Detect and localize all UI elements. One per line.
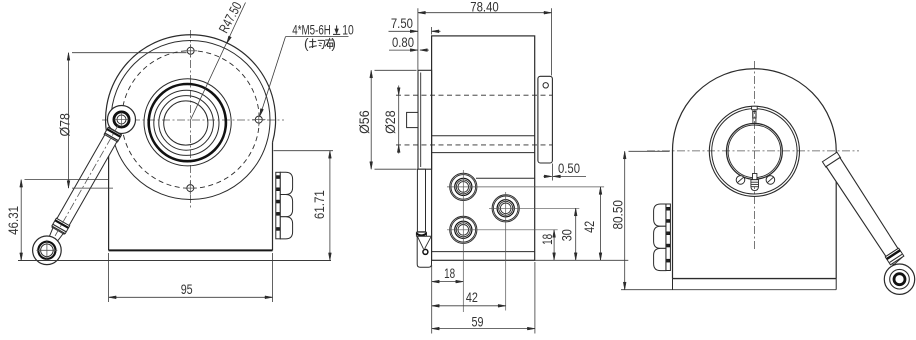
left view: R47.50 radial leader — [191, 3, 246, 121]
left view: M5 hole bottom — [187, 185, 194, 192]
dim 30 right — [575, 208, 577, 260]
middle view: boss centerlines — [447, 186, 604, 188]
svg-text:4*M5-6H: 4*M5-6H — [292, 22, 331, 37]
svg-text:10: 10 — [342, 22, 354, 37]
right view: top slot — [752, 106, 758, 109]
right view: lever ball — [884, 264, 914, 294]
dim 18 right — [553, 230, 555, 260]
middle view: hidden bore lines — [396, 94, 552, 96]
right view: base plate — [673, 278, 837, 280]
middle view: body — [432, 36, 535, 260]
svg-text:0.50: 0.50 — [558, 161, 580, 176]
svg-text:Ø56: Ø56 — [357, 110, 372, 134]
left view: connector side — [276, 172, 281, 239]
bottom extension right — [535, 259, 628, 261]
right view: bottom set screw — [753, 174, 757, 180]
svg-text:Ø28: Ø28 — [383, 110, 398, 134]
left view: lever shaft — [52, 127, 121, 234]
right view: lever shaft — [826, 158, 898, 257]
svg-text:7.50: 7.50 — [391, 16, 413, 31]
right view: dome outline — [673, 69, 837, 151]
svg-text:78.40: 78.40 — [470, 0, 499, 15]
right view: lever top cap — [822, 152, 840, 167]
middle view: cylinder boss — [418, 70, 432, 169]
left view: body sides — [108, 142, 110, 250]
middle view: lever bar — [417, 169, 425, 232]
left view: base bottom — [109, 249, 273, 251]
left view: bolt circle (dashed) — [122, 51, 260, 189]
svg-text:18: 18 — [444, 266, 455, 281]
left view: M5 hole top — [187, 47, 194, 54]
right view: lever taper to ball — [890, 257, 902, 268]
svg-text:18: 18 — [540, 234, 555, 245]
svg-text:80.50: 80.50 — [610, 200, 625, 230]
leader 4*M5 — [261, 37, 286, 115]
right view: clamp ring circles — [709, 106, 799, 196]
left view: lever shaft centerline — [42, 125, 118, 259]
middle view: horizontal seams — [432, 135, 535, 137]
dim 42 right — [600, 187, 602, 260]
svg-text:42: 42 — [582, 221, 597, 233]
middle view: face tab — [407, 112, 418, 127]
svg-text:(: ( — [304, 36, 309, 51]
middle view: boss fittings — [450, 173, 477, 200]
svg-text:59: 59 — [472, 314, 484, 329]
dim 59 bottom — [534, 262, 536, 334]
dim 46.31 vertical — [20, 180, 22, 261]
left view: inner bearing circles — [144, 79, 231, 166]
left view: M5 hole right — [255, 116, 262, 123]
svg-text:): ) — [331, 36, 336, 51]
svg-text:Ø78: Ø78 — [57, 113, 72, 137]
right view: centerlines — [647, 150, 859, 152]
right view: connector side — [666, 204, 671, 271]
right view: lever collar — [885, 248, 904, 265]
svg-text:95: 95 — [181, 282, 193, 297]
dim Ø28 — [398, 86, 400, 154]
left view: flange circle — [111, 41, 270, 200]
dim 18 bottom — [431, 265, 433, 334]
svg-text:0.80: 0.80 — [392, 35, 414, 50]
left view: lever ball end — [33, 236, 62, 265]
left view: centerlines — [190, 30, 192, 210]
middle view: rear flange plate — [538, 76, 553, 163]
svg-text:46.31: 46.31 — [6, 206, 21, 235]
middle view: lever ball block — [417, 236, 431, 267]
dim 42 bottom — [432, 305, 506, 307]
left view: dome outline — [106, 35, 276, 143]
right view: body sides — [672, 150, 674, 278]
left view: lever pivot boss — [108, 106, 136, 134]
dim 0.50 — [552, 164, 554, 181]
svg-text:30: 30 — [559, 229, 574, 241]
svg-text:61.71: 61.71 — [312, 190, 327, 219]
dim Ø78 vertical — [68, 53, 70, 188]
svg-text:42: 42 — [466, 290, 478, 305]
dim 95 horizontal — [108, 253, 110, 302]
dim 78.40 top — [417, 8, 419, 70]
dim 80.50 — [624, 151, 626, 289]
dim 61.71 vertical — [274, 150, 334, 152]
middle view: lever ferrule band — [416, 232, 426, 236]
left view: shared baseline — [18, 260, 331, 262]
right view: clamp screws — [736, 176, 745, 185]
dim Ø56 — [375, 69, 417, 71]
